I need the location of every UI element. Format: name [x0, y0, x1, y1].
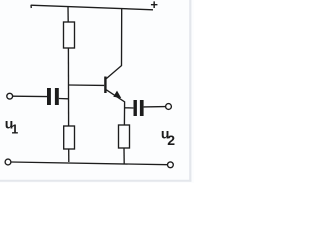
- svg-text:+: +: [150, 0, 158, 12]
- svg-text:1: 1: [11, 122, 18, 136]
- svg-text:2: 2: [167, 132, 175, 148]
